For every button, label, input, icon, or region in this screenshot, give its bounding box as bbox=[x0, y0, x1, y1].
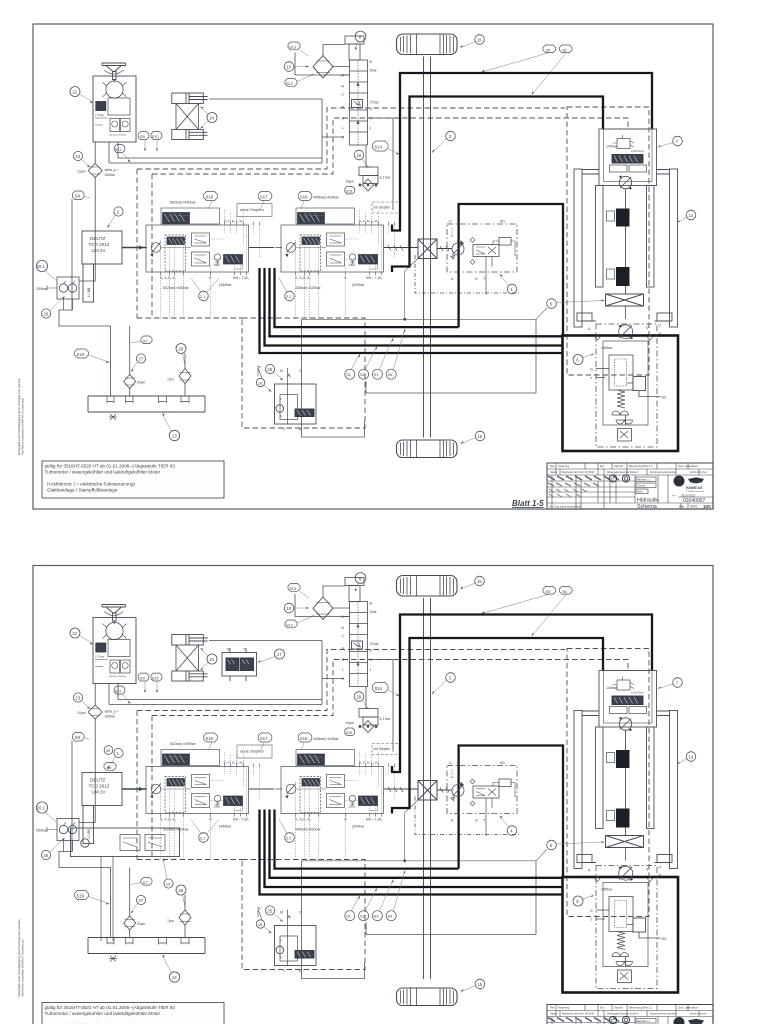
svg-text:3,1 bar: 3,1 bar bbox=[380, 176, 391, 180]
svg-text:140bar: 140bar bbox=[606, 145, 618, 149]
svg-text:20µm: 20µm bbox=[137, 381, 146, 385]
drum shaft and bearings bbox=[607, 189, 630, 295]
svg-text:S10: S10 bbox=[152, 135, 159, 139]
svg-text:445bar(>420bar: 445bar(>420bar bbox=[313, 196, 339, 200]
svg-text:10µm: 10µm bbox=[346, 180, 355, 184]
charge pump drain bbox=[64, 299, 73, 310]
box 6 thick border bbox=[563, 336, 679, 452]
dashed enclosure outer bbox=[137, 108, 565, 318]
circle 24 bbox=[200, 107, 217, 129]
valve block 17 (R-T) bbox=[222, 648, 257, 681]
circle 26 bbox=[41, 296, 65, 318]
svg-text:G: G bbox=[590, 368, 593, 372]
hex S19 bbox=[75, 349, 110, 363]
svg-text:17: 17 bbox=[277, 652, 282, 657]
manifold 8 column bbox=[345, 36, 368, 145]
relief block 29 bbox=[359, 146, 378, 192]
svg-text:L04 2V: L04 2V bbox=[92, 248, 106, 253]
thick loop to box6 bbox=[459, 204, 563, 336]
svg-text:S5: S5 bbox=[546, 48, 551, 52]
svg-text:7µm: 7µm bbox=[167, 378, 174, 382]
svg-text:Turbomotor / wasergekühlter un: Turbomotor / wasergekühlter und ladeluft… bbox=[45, 470, 161, 475]
circle 20.1 bbox=[36, 260, 56, 280]
svg-text:MH ↕ T₄W₄: MH ↕ T₄W₄ bbox=[366, 276, 383, 280]
svg-text:mit Stopfen: mit Stopfen bbox=[374, 206, 391, 210]
tire shafts bbox=[424, 57, 431, 438]
circle 5 bbox=[547, 299, 605, 309]
svg-text:0,25-0,5mm: 0,25-0,5mm bbox=[631, 150, 644, 153]
svg-text:Hidraulik-: Hidraulik- bbox=[637, 498, 660, 504]
hex S18 bbox=[204, 192, 218, 210]
dashed motor7 enclosure bbox=[567, 107, 649, 375]
svg-text:22: 22 bbox=[72, 89, 77, 94]
brake valve block bbox=[258, 366, 316, 424]
manifold port stubs bbox=[322, 75, 393, 210]
svg-text:G: G bbox=[475, 277, 478, 281]
svg-text:445bar(>420bar: 445bar(>420bar bbox=[295, 286, 321, 290]
svg-text:S16: S16 bbox=[300, 195, 308, 200]
svg-text:S5: S5 bbox=[107, 766, 112, 770]
title block bbox=[547, 463, 713, 509]
svg-text:HAMM AG: HAMM AG bbox=[686, 486, 703, 490]
hex S7 bbox=[131, 336, 152, 344]
circle 23 bbox=[73, 151, 90, 167]
steering cylinders 24 bbox=[172, 93, 208, 140]
circle 8 bbox=[355, 31, 366, 50]
svg-text:16: 16 bbox=[258, 380, 263, 385]
circle 25 bbox=[265, 364, 283, 380]
svg-text:U: U bbox=[449, 220, 452, 224]
svg-text:27bar: 27bar bbox=[370, 101, 380, 105]
svg-text:N: N bbox=[341, 85, 344, 89]
svg-text:Von Orig.stand abweichend: Von Orig.stand abweichend bbox=[549, 505, 581, 509]
crossed box (pump splitter) bbox=[418, 239, 437, 259]
leader line to 5 bbox=[302, 259, 547, 321]
svg-text:Ers.: Ers. bbox=[600, 464, 605, 468]
charge pump unit bbox=[47, 277, 79, 299]
svg-text:Benennung/Titel-1.2: Benennung/Titel-1.2 bbox=[629, 464, 653, 468]
svg-text:S12: S12 bbox=[286, 82, 293, 86]
dashed brake enclosure bbox=[242, 318, 365, 428]
svg-text:M: M bbox=[341, 74, 344, 78]
inter-pump shaft bbox=[249, 246, 452, 252]
svg-text:L: L bbox=[342, 126, 344, 130]
box 6 internals bbox=[595, 306, 661, 447]
svg-text:24: 24 bbox=[209, 115, 214, 120]
hex S11 bbox=[114, 145, 131, 163]
left margin rotated note bbox=[17, 378, 25, 455]
svg-text:Schutzvermerk beachtet: Schutzvermerk beachtet bbox=[650, 471, 676, 474]
svg-text:R: R bbox=[227, 648, 230, 652]
svg-text:Alle Rechte vorbehalten HAMM A: Alle Rechte vorbehalten HAMM AG Tirschen… bbox=[21, 397, 25, 455]
thick pump bundle bbox=[260, 268, 563, 353]
svg-text:20bar: 20bar bbox=[349, 263, 356, 267]
svg-text:M1: M1 bbox=[500, 220, 505, 224]
svg-text:Schema: Schema bbox=[637, 504, 657, 510]
svg-text:HAMM: HAMM bbox=[691, 480, 701, 484]
filter 23 diamond bbox=[77, 164, 119, 178]
circle 22 bbox=[70, 87, 94, 104]
hex S9 S10 bbox=[138, 132, 162, 152]
svg-text:delta_p =: delta_p = bbox=[105, 168, 119, 172]
svg-text:S9: S9 bbox=[140, 134, 146, 139]
circle 17 bbox=[257, 649, 284, 663]
info text box bbox=[42, 461, 224, 498]
svg-text:DEUTZ: DEUTZ bbox=[90, 236, 106, 241]
circle 15 top bbox=[460, 35, 485, 48]
svg-text:⚲: ⚲ bbox=[646, 326, 649, 330]
svg-text:S3: S3 bbox=[374, 373, 379, 377]
hex S14 bbox=[373, 141, 400, 154]
S1-S4 sensor circles bbox=[345, 328, 405, 379]
svg-text:15: 15 bbox=[477, 37, 482, 42]
svg-text:TOP: TOP bbox=[676, 477, 682, 481]
drawing frame bbox=[33, 24, 713, 509]
hex S12 bbox=[285, 74, 314, 87]
circle 1 bbox=[107, 207, 123, 228]
svg-text:10: 10 bbox=[286, 64, 291, 69]
svg-text:X₅ X₆X₇ X₈: X₅ X₆X₇ X₈ bbox=[295, 276, 311, 280]
filter 28 (7um) bbox=[167, 354, 191, 397]
svg-text:S13: S13 bbox=[289, 46, 296, 50]
svg-text:2.2: 2.2 bbox=[286, 294, 292, 299]
svg-text:28: 28 bbox=[178, 346, 183, 351]
tank 13 bbox=[88, 396, 205, 420]
svg-text:H: H bbox=[370, 117, 373, 121]
hex S15 bbox=[345, 187, 355, 194]
circle 7 bbox=[658, 136, 683, 147]
svg-text:(450bar: (450bar bbox=[219, 283, 232, 287]
svg-text:160bar: 160bar bbox=[105, 173, 116, 177]
svg-text:S7: S7 bbox=[143, 338, 149, 343]
svg-text:2bar: 2bar bbox=[370, 69, 378, 73]
svg-text:250/1bar 250/1bar: 250/1bar 250/1bar bbox=[109, 134, 127, 137]
svg-text:J: J bbox=[370, 127, 372, 131]
svg-text:Gewicht: Gewicht bbox=[637, 484, 646, 487]
thick travel line 1 bbox=[392, 73, 652, 231]
tire top bbox=[397, 34, 458, 55]
dashed enclosure inner bbox=[152, 118, 628, 318]
svg-text:13: 13 bbox=[172, 433, 177, 438]
svg-text:Weitergabe/Geprüfte Stelle-4: Weitergabe/Geprüfte Stelle-4 bbox=[607, 471, 639, 474]
svg-text:S19: S19 bbox=[77, 352, 85, 357]
svg-text:S18: S18 bbox=[206, 195, 214, 200]
pump group 2 bbox=[275, 196, 395, 301]
mit Stopfen note bbox=[372, 202, 400, 213]
svg-text:HAMMtronic ( = elektrische Fa: HAMMtronic ( = elektrische Fahrsteuerung… bbox=[47, 482, 135, 487]
svg-text:S17: S17 bbox=[260, 195, 268, 200]
svg-text:Blatt 1-5: Blatt 1-5 bbox=[512, 499, 544, 508]
svg-text:Blatt: Blatt bbox=[679, 505, 684, 509]
svg-text:20bar: 20bar bbox=[214, 263, 221, 267]
circle 28 bbox=[176, 344, 186, 366]
svg-text:502bar(>460bar: 502bar(>460bar bbox=[163, 286, 189, 290]
engine shaft bbox=[122, 246, 146, 250]
svg-text:100: 100 bbox=[676, 482, 681, 486]
svg-text:S4: S4 bbox=[388, 373, 393, 377]
svg-text:MH ↕ T₁W₁: MH ↕ T₁W₁ bbox=[233, 276, 250, 280]
circle 10 bbox=[284, 62, 309, 72]
circle 3 bbox=[432, 131, 455, 153]
svg-text:23: 23 bbox=[75, 154, 80, 159]
svg-text:M1: M1 bbox=[662, 396, 667, 400]
circle 19 bbox=[163, 858, 173, 888]
svg-text:S14: S14 bbox=[375, 145, 383, 150]
svg-text:C: C bbox=[341, 93, 344, 97]
drum frame 14 bbox=[574, 169, 678, 327]
svg-text:U: U bbox=[659, 324, 662, 328]
pump bottom pilot lines bbox=[161, 209, 379, 318]
circle 4 bbox=[499, 274, 517, 294]
svg-text:Geprüft: Geprüft bbox=[614, 464, 623, 468]
circle 13 bbox=[162, 413, 180, 441]
svg-text:20.1: 20.1 bbox=[37, 264, 46, 269]
ohne Stopfen note bbox=[237, 204, 272, 217]
dash-dot near crossed box bbox=[415, 255, 520, 293]
thin frame lines lower center bbox=[302, 319, 537, 437]
hex S5 left bbox=[104, 763, 116, 771]
hex S5 S6 top right bbox=[481, 45, 572, 95]
pump group 1 bbox=[140, 201, 260, 301]
steering feed wires bbox=[79, 142, 95, 281]
svg-text:30: 30 bbox=[106, 748, 111, 753]
svg-text:S8: S8 bbox=[75, 193, 81, 198]
circle 30 bbox=[104, 746, 113, 755]
svg-text:250bar: 250bar bbox=[36, 287, 48, 291]
svg-text:X₁ X₂X₃ X₄: X₁ X₂X₃ X₄ bbox=[160, 276, 176, 280]
hex S13 bbox=[288, 42, 309, 57]
svg-text:02040007: 02040007 bbox=[683, 498, 705, 504]
svg-text:S15: S15 bbox=[346, 190, 352, 194]
steering unit 22 (orbitrol) bbox=[93, 76, 136, 142]
svg-text:S2: S2 bbox=[360, 373, 365, 377]
svg-text:Zust. Lieferdatum: Zust. Lieferdatum bbox=[678, 464, 698, 468]
svg-text:0001: 0001 bbox=[690, 505, 698, 509]
steering wheel bbox=[102, 63, 126, 83]
svg-text:K₄ F₄ E₄ L₄ W₄: K₄ F₄ E₄ L₄ W₄ bbox=[359, 219, 380, 223]
thick travel line 2 bbox=[392, 97, 603, 273]
hex S16 bbox=[298, 192, 312, 210]
svg-text:145bar: 145bar bbox=[601, 346, 613, 350]
svg-text:1.75 bar: 1.75 bar bbox=[95, 114, 104, 117]
circle 14 bbox=[677, 210, 696, 223]
svg-text:S1: S1 bbox=[346, 373, 351, 377]
svg-text:Änderung: Änderung bbox=[558, 464, 570, 468]
auxiliary brake valve block bbox=[71, 828, 180, 941]
svg-text:Glattbandage / Stampffußbandag: Glattbandage / Stampffußbandage bbox=[47, 488, 118, 493]
circle 29 bbox=[354, 150, 369, 168]
circle 6 bbox=[573, 353, 594, 364]
svg-text:10µm: 10µm bbox=[77, 170, 86, 174]
filter unit 10 diamond bbox=[295, 45, 350, 78]
svg-text:2.1: 2.1 bbox=[200, 294, 206, 299]
svg-text:29: 29 bbox=[356, 153, 361, 158]
svg-text:Weitergabe sowie Vervielfaelti: Weitergabe sowie Vervielfaeltigung diese… bbox=[17, 378, 21, 455]
svg-text:26: 26 bbox=[43, 311, 48, 316]
circle 27 bbox=[131, 354, 146, 372]
svg-text:19: 19 bbox=[166, 881, 171, 886]
svg-text:100: 100 bbox=[703, 504, 711, 509]
steering lines to cylinders bbox=[109, 99, 322, 163]
filter 27 (20um) bbox=[124, 326, 146, 396]
hex S17 bbox=[258, 192, 272, 210]
svg-text:(420bar: (420bar bbox=[352, 283, 365, 287]
svg-text:TCD 2012: TCD 2012 bbox=[89, 242, 110, 247]
svg-text:14: 14 bbox=[688, 213, 693, 218]
hex S8 bbox=[73, 191, 91, 200]
svg-text:S6: S6 bbox=[562, 48, 567, 52]
svg-text:M: M bbox=[280, 369, 283, 373]
svg-text:502bar(>490bar: 502bar(>490bar bbox=[170, 201, 196, 205]
S8 drain wire bbox=[59, 199, 111, 396]
Blatt label bbox=[512, 499, 544, 508]
svg-text:Rev: Rev bbox=[550, 464, 555, 468]
svg-text:25: 25 bbox=[267, 367, 272, 372]
svg-text:S11: S11 bbox=[115, 148, 121, 152]
motor 7 box bbox=[599, 129, 657, 189]
svg-text:27: 27 bbox=[138, 356, 143, 361]
svg-text:Bearbeitet durch Abt. ZN-B.06: Bearbeitet durch Abt. ZN-B.06 bbox=[562, 471, 595, 474]
engine DEUTZ box bbox=[82, 231, 122, 302]
motor 4 assembly bbox=[447, 224, 517, 295]
svg-text:L1 BB: L1 BB bbox=[87, 287, 91, 297]
svg-text:T: T bbox=[283, 428, 285, 432]
svg-text:Datum: Datum bbox=[550, 471, 557, 474]
gearbox 5 crossed bbox=[606, 294, 644, 306]
sheet 1 bottom tire bbox=[397, 431, 485, 457]
svg-text:gültig für 3516HT-3520 HT ab: gültig für 3516HT-3520 HT ab 01.01.2006-… bbox=[45, 464, 176, 469]
svg-text:Archiv-Nummer: Archiv-Nummer bbox=[690, 471, 707, 474]
svg-text:K₂ F₂ E₂ L₂ W₂: K₂ F₂ E₂ L₂ W₂ bbox=[224, 219, 244, 223]
svg-text:Maßstab 1:1: Maßstab 1:1 bbox=[637, 478, 650, 481]
svg-text:Datei: Datei bbox=[637, 490, 643, 493]
circle 16 bbox=[256, 378, 272, 391]
